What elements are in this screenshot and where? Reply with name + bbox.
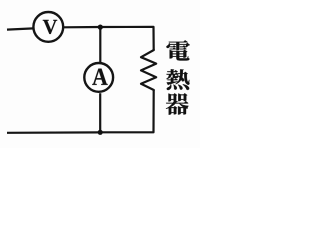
ammeter A1 circle xyxy=(84,63,113,92)
voltmeter V1 circle xyxy=(33,12,63,42)
wire: ammeter bottom down to node B xyxy=(99,93,101,132)
wire: node B to left terminal (bottom) xyxy=(7,131,100,134)
label text 電 (electric) xyxy=(166,40,189,60)
node A junction dot xyxy=(98,25,103,30)
node B junction dot xyxy=(98,130,103,135)
label text 器 (device) xyxy=(166,93,189,115)
wire: voltmeter to node A xyxy=(64,26,100,28)
ammeter letter A xyxy=(92,69,107,85)
wire: left terminal to voltmeter xyxy=(7,28,34,29)
resistor R (電熱器 heater element) zigzag xyxy=(141,50,156,90)
wire: resistor bottom lead down to bottom-right corner, then to node B xyxy=(100,90,154,132)
label text 熱 (heat) xyxy=(166,69,189,90)
wire: node A down to ammeter top xyxy=(99,27,101,62)
wire: node A to top-right corner and down to resistor top lead xyxy=(100,27,154,50)
voltmeter letter V xyxy=(43,20,57,34)
